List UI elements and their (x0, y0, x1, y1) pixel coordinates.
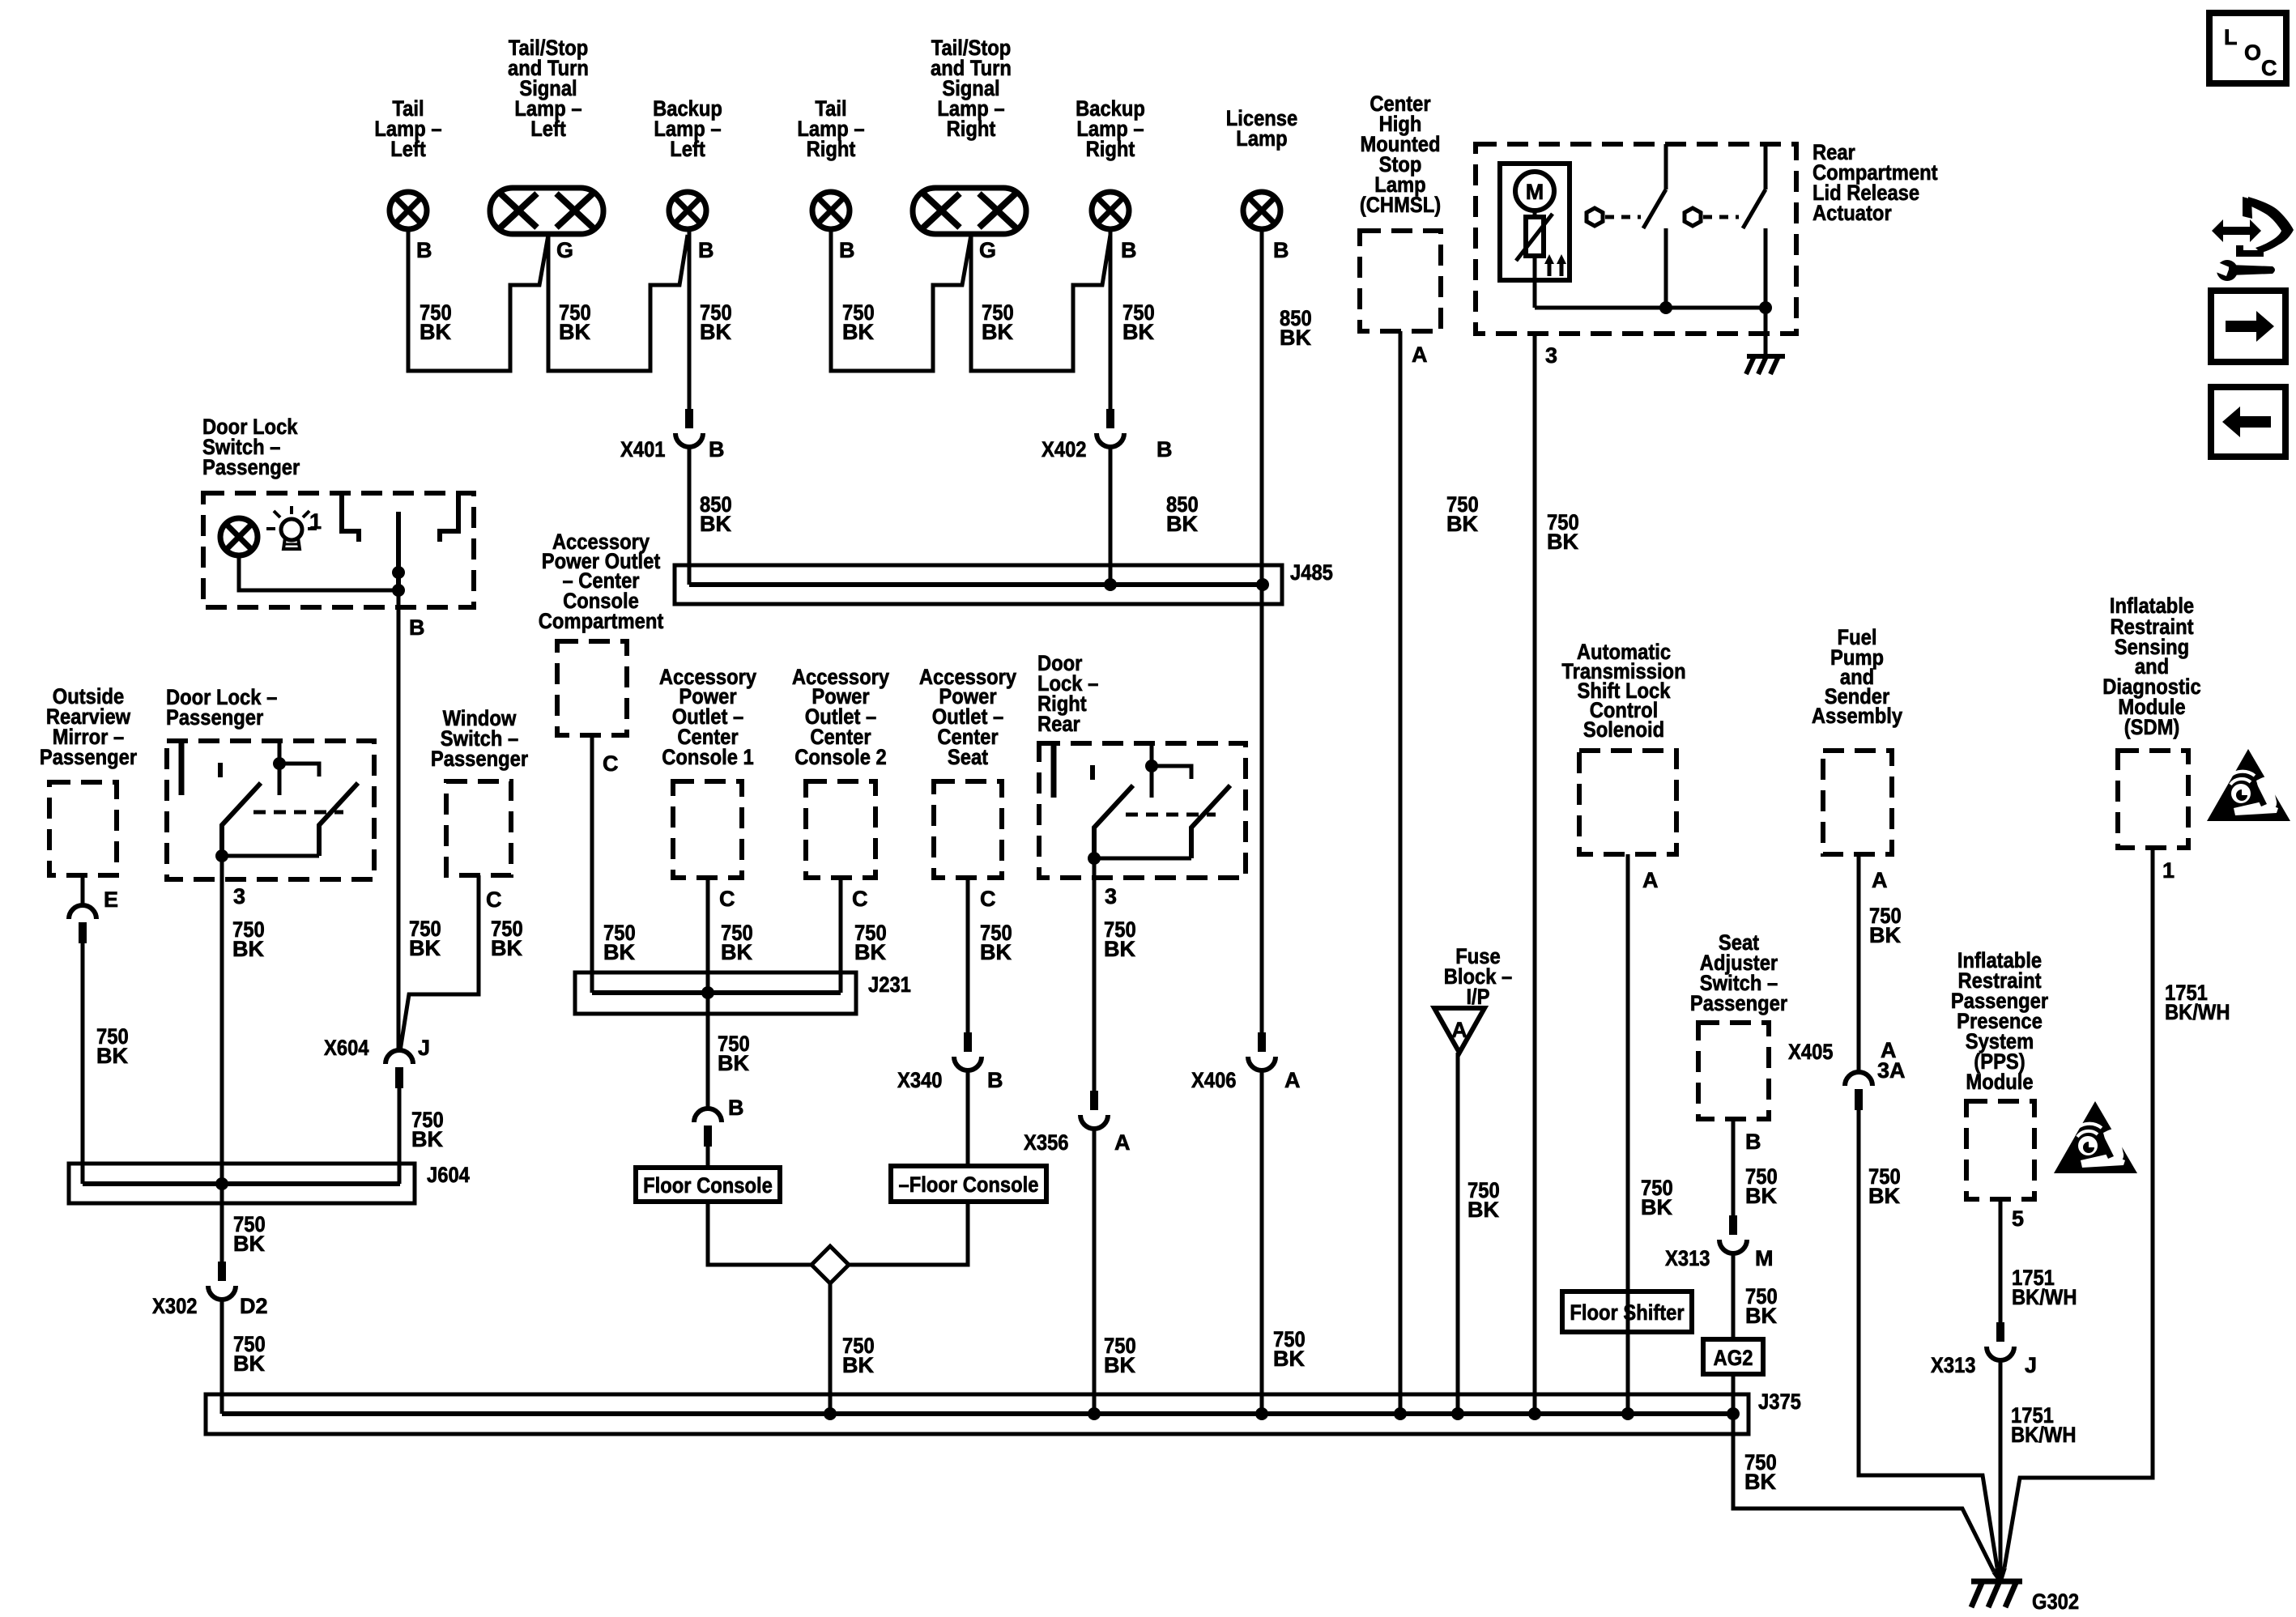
connector X604 (386, 1050, 413, 1088)
junction J231 (575, 972, 856, 1014)
svg-text:Solenoid: Solenoid (1583, 717, 1664, 742)
mirror box (49, 782, 117, 875)
wrench / car icon (2212, 197, 2294, 281)
svg-text:X313: X313 (1665, 1246, 1710, 1270)
wire tail lamp left to signal lamp G (408, 232, 548, 371)
wire X313 J to G302 (1999, 1361, 2003, 1577)
wire X356 to J375 (1093, 1130, 1097, 1414)
svg-text:X356: X356 (1024, 1130, 1069, 1155)
wire PPS to X313 J (1999, 1199, 2003, 1322)
splice diamond (811, 1246, 849, 1283)
wire X302 to J375 (220, 1300, 224, 1414)
fuse block triangle (1434, 1008, 1485, 1053)
wire license lamp down through J485 to X406 (1260, 232, 1264, 1032)
console 2 outlet box (806, 781, 875, 878)
wire fuel pump to X405 (1857, 854, 1861, 1073)
wire compartment outlet to J231 (590, 735, 594, 993)
svg-text:BK: BK (700, 320, 731, 344)
forward arrow box (2211, 291, 2285, 362)
chassis ground under actuator (1746, 356, 1785, 374)
actuator dashed box (1476, 144, 1796, 334)
svg-text:Passenger: Passenger (431, 747, 529, 771)
ground symbol G302 (1971, 1581, 2022, 1607)
window switch box (446, 781, 511, 875)
svg-text:G: G (979, 238, 996, 262)
svg-text:BK: BK (1745, 1304, 1777, 1328)
svg-text:BK: BK (1446, 512, 1478, 536)
svg-text:BK: BK (1467, 1198, 1499, 1222)
svg-text:(CHMSL): (CHMSL) (1360, 193, 1441, 217)
wire E to J604 (81, 943, 85, 1184)
svg-text:A: A (1451, 1018, 1467, 1042)
tail/stop and turn signal lamp right (913, 188, 1026, 234)
svg-text:BK: BK (1166, 512, 1198, 536)
wire floor console to diamond (708, 1202, 811, 1265)
svg-text:BK: BK (420, 320, 451, 344)
svg-text:B: B (987, 1068, 1003, 1092)
door lock switch box (203, 493, 474, 607)
svg-text:Module: Module (1966, 1070, 2033, 1094)
wire backup lamp right down (1109, 232, 1113, 409)
license lamp (1243, 192, 1280, 229)
PTC element (1533, 211, 1537, 217)
wire -floor console to diamond (849, 1202, 968, 1265)
svg-text:G302: G302 (2032, 1589, 2079, 1614)
AG2 box (1703, 1339, 1763, 1374)
door lock right rear internals (1051, 745, 1057, 798)
connector X313 J (1987, 1322, 2014, 1360)
svg-text:C: C (852, 887, 868, 911)
svg-text:BK: BK (982, 320, 1013, 344)
svg-text:3A: 3A (1877, 1058, 1906, 1083)
svg-text:B: B (709, 437, 725, 462)
svg-text:Console 2: Console 2 (794, 745, 887, 769)
svg-text:C: C (980, 887, 996, 911)
svg-text:M: M (1755, 1246, 1774, 1270)
wire seat adjuster to X313 (1732, 1119, 1736, 1215)
svg-text:1: 1 (309, 509, 322, 534)
connector X356 (1080, 1091, 1108, 1129)
svg-text:BK: BK (1122, 320, 1154, 344)
svg-text:G: G (556, 238, 573, 262)
switch 1 (1664, 144, 1668, 189)
wire lamp to pole (239, 557, 398, 590)
LOC box (2209, 13, 2286, 83)
floor console box (636, 1168, 780, 1202)
svg-text:BK/WH: BK/WH (2012, 1285, 2077, 1309)
svg-text:(SDM): (SDM) (2124, 715, 2180, 739)
svg-text:Right: Right (807, 137, 856, 161)
svg-text:Passenger: Passenger (40, 745, 138, 769)
svg-text:J: J (2025, 1353, 2037, 1377)
wire X405 to ground funnel (1859, 1110, 1997, 1568)
backup lamp left (669, 192, 706, 229)
svg-text:BK: BK (1273, 1347, 1305, 1371)
svg-text:A: A (1412, 343, 1428, 367)
PPS module box (1966, 1101, 2034, 1199)
switch contact bracket left (342, 496, 359, 542)
wire tail lamp right to signal lamp G (831, 232, 971, 371)
svg-text:BK: BK (1745, 1184, 1777, 1208)
motor M (1515, 172, 1554, 211)
wire center seat outlet to X340 (966, 878, 970, 1032)
svg-text:C: C (486, 887, 502, 912)
wire mirror to connector E (81, 875, 85, 906)
svg-text:BK: BK (491, 936, 522, 960)
arrows up (1549, 261, 1561, 276)
wire X604 to J604 (398, 1088, 402, 1184)
svg-text:AG2: AG2 (1714, 1346, 1753, 1370)
svg-text:Console 1: Console 1 (662, 745, 754, 769)
wire diamond to J375 (829, 1283, 833, 1414)
svg-text:BK: BK (842, 320, 874, 344)
svg-text:BK: BK (1641, 1195, 1672, 1219)
svg-text:BK: BK (842, 1353, 874, 1377)
center seat outlet box (934, 781, 1002, 878)
bulb icon (266, 506, 317, 549)
svg-text:B: B (409, 615, 425, 640)
junction J375 (206, 1394, 1749, 1434)
svg-text:3: 3 (1105, 884, 1117, 908)
internal bus (1535, 306, 1766, 310)
wire actuator motor to J375 (1533, 334, 1537, 1414)
ground funnel (1994, 1568, 2004, 1581)
-floor console box (891, 1166, 1046, 1202)
svg-text:B: B (416, 238, 432, 262)
wire window switch to X604 (400, 875, 479, 1051)
svg-text:Passenger: Passenger (166, 705, 264, 730)
wire motor to internal bus (1533, 256, 1537, 308)
svg-text:B: B (698, 238, 714, 262)
junction J485 (675, 565, 1282, 604)
svg-text:Compartment: Compartment (539, 609, 664, 633)
svg-text:BK: BK (1868, 1184, 1900, 1208)
wire door lock 3 down to J604 (220, 856, 224, 1184)
door lock right rear box (1039, 743, 1246, 878)
wire door lock switch B down to X604 (397, 590, 401, 1052)
connector X402 (1097, 409, 1124, 447)
connector X406 (1248, 1032, 1276, 1070)
tail lamp left (390, 192, 427, 229)
svg-text:X406: X406 (1191, 1068, 1237, 1092)
svg-text:5: 5 (2012, 1206, 2024, 1231)
backup lamp right (1092, 192, 1129, 229)
svg-text:BK: BK (232, 937, 264, 961)
wire console 1 outlet through J231 (706, 878, 710, 1109)
lamp in switch (220, 518, 258, 555)
svg-text:BK: BK (96, 1044, 128, 1068)
svg-text:BK: BK (718, 1051, 749, 1075)
svg-text:X405: X405 (1788, 1040, 1834, 1064)
svg-text:1: 1 (2162, 858, 2175, 883)
connector X340 (694, 1108, 722, 1147)
door lock box (167, 741, 374, 879)
svg-text:I/P: I/P (1466, 985, 1489, 1009)
svg-text:C: C (2261, 56, 2277, 80)
svg-text:BK: BK (980, 940, 1012, 964)
svg-text:Right: Right (1086, 137, 1135, 161)
wire X401 to J485 (688, 448, 692, 585)
wire AG2 through J375 to ground funnel (1732, 1374, 1736, 1414)
airbag warning triangle (2054, 1101, 2137, 1173)
wire ATSLC solenoid to J375 (1626, 854, 1630, 1414)
svg-text:Right: Right (947, 117, 996, 141)
wire backup lamp left down (688, 232, 692, 409)
wire signal lamp right G to backup lamp B (971, 234, 1110, 371)
CHMSL box (1360, 231, 1441, 331)
svg-text:O: O (2244, 40, 2261, 65)
svg-text:BK: BK (411, 1127, 443, 1151)
wire fuse block to J375 (1456, 1053, 1460, 1414)
svg-text:BK: BK (1547, 530, 1578, 554)
svg-text:A: A (1114, 1130, 1131, 1155)
compartment outlet box (557, 641, 627, 735)
svg-text:B: B (1273, 238, 1289, 262)
svg-text:A: A (1284, 1068, 1301, 1092)
seat adjuster box (1698, 1023, 1769, 1119)
console 1 outlet box (673, 781, 742, 878)
connector X313 M (1719, 1215, 1747, 1253)
svg-text:Left: Left (390, 137, 426, 161)
svg-text:BK: BK (409, 936, 441, 960)
svg-text:–Floor Console: –Floor Console (899, 1172, 1039, 1197)
svg-text:Rear: Rear (1037, 712, 1080, 736)
svg-text:X313: X313 (1931, 1353, 1976, 1377)
svg-text:Floor Console: Floor Console (643, 1173, 773, 1198)
svg-text:BK: BK (1869, 923, 1901, 947)
switch pole (396, 512, 401, 590)
svg-text:J375: J375 (1758, 1389, 1801, 1414)
svg-text:B: B (1157, 437, 1173, 462)
svg-text:X340: X340 (897, 1068, 943, 1092)
connector X302 (208, 1262, 236, 1300)
ATSLC solenoid box (1579, 751, 1676, 854)
wire door lock right rear to X356 (1093, 858, 1097, 1091)
svg-text:3: 3 (1545, 343, 1557, 368)
svg-text:Left: Left (530, 117, 566, 141)
svg-text:J604: J604 (427, 1163, 470, 1187)
wire X406 to J375 (1260, 1071, 1264, 1414)
svg-text:BK: BK (1104, 937, 1135, 961)
svg-text:BK: BK (233, 1351, 265, 1376)
svg-text:B: B (1745, 1130, 1761, 1154)
svg-text:A: A (1642, 868, 1659, 892)
svg-text:BK/WH: BK/WH (2165, 1000, 2230, 1024)
connector X405 (1845, 1072, 1872, 1110)
svg-text:X402: X402 (1042, 437, 1087, 462)
svg-text:BK: BK (1744, 1470, 1776, 1494)
svg-text:Left: Left (670, 137, 705, 161)
svg-text:J485: J485 (1290, 560, 1333, 585)
svg-text:BK: BK (1104, 1353, 1135, 1377)
switch contact bracket right (440, 496, 458, 542)
svg-text:BK: BK (721, 940, 752, 964)
connector E (69, 905, 96, 943)
wire X313 to AG2 (1732, 1254, 1736, 1339)
svg-text:X302: X302 (152, 1294, 198, 1318)
svg-text:Seat: Seat (948, 745, 988, 769)
fuel pump box (1823, 751, 1892, 854)
connector X401 (675, 409, 703, 447)
door lock internals (179, 743, 185, 795)
svg-text:Passenger: Passenger (202, 455, 300, 479)
wire console 2 outlet to J231 (839, 878, 843, 993)
svg-text:BK: BK (1280, 326, 1311, 350)
wire J604 down to X302 (220, 1184, 224, 1262)
svg-text:A: A (1872, 868, 1888, 892)
svg-text:J: J (418, 1036, 430, 1060)
svg-text:B: B (1121, 238, 1137, 262)
junction J604 (69, 1164, 415, 1203)
motor assembly box (1500, 164, 1570, 280)
svg-text:E: E (104, 887, 118, 912)
svg-text:Floor Shifter: Floor Shifter (1570, 1300, 1685, 1325)
svg-text:B: B (728, 1096, 744, 1120)
svg-text:C: C (719, 887, 735, 911)
svg-text:D2: D2 (240, 1294, 268, 1318)
svg-text:BK: BK (700, 512, 731, 536)
svg-text:M: M (1526, 180, 1544, 204)
svg-text:X401: X401 (620, 437, 666, 462)
svg-text:Lamp: Lamp (1236, 126, 1287, 151)
ground wire from actuator (1764, 308, 1768, 356)
svg-text:Passenger: Passenger (1690, 991, 1788, 1015)
SDM box (2118, 751, 2188, 848)
connector X340 (954, 1032, 982, 1070)
airbag warning triangle (2207, 749, 2290, 821)
tail lamp right (812, 192, 850, 229)
svg-text:3: 3 (233, 884, 245, 908)
svg-text:B: B (839, 238, 855, 262)
svg-text:Assembly: Assembly (1812, 704, 1902, 728)
wire X402 to J485 (1109, 448, 1113, 585)
svg-text:BK: BK (603, 940, 635, 964)
svg-text:BK/WH: BK/WH (2011, 1423, 2077, 1447)
wire X340 to floor console (706, 1147, 710, 1168)
svg-text:X604: X604 (324, 1036, 369, 1060)
svg-text:BK: BK (559, 320, 590, 344)
svg-text:BK: BK (233, 1232, 265, 1256)
svg-text:L: L (2224, 25, 2238, 49)
svg-text:BK: BK (854, 940, 886, 964)
wire CHMSL to J375 (1399, 331, 1403, 1414)
svg-text:Actuator: Actuator (1813, 201, 1892, 225)
tail/stop and turn signal lamp left (490, 188, 603, 234)
svg-text:C: C (603, 751, 619, 776)
switch 2 (1764, 144, 1768, 189)
back arrow box (2211, 387, 2285, 457)
floor shifter box (1562, 1291, 1692, 1332)
wire SDM to ground funnel (2004, 848, 2153, 1568)
wire signal lamp G down to backup lamp B (548, 234, 688, 371)
svg-text:J231: J231 (868, 972, 911, 997)
wire X340 to -floor console (966, 1071, 970, 1166)
